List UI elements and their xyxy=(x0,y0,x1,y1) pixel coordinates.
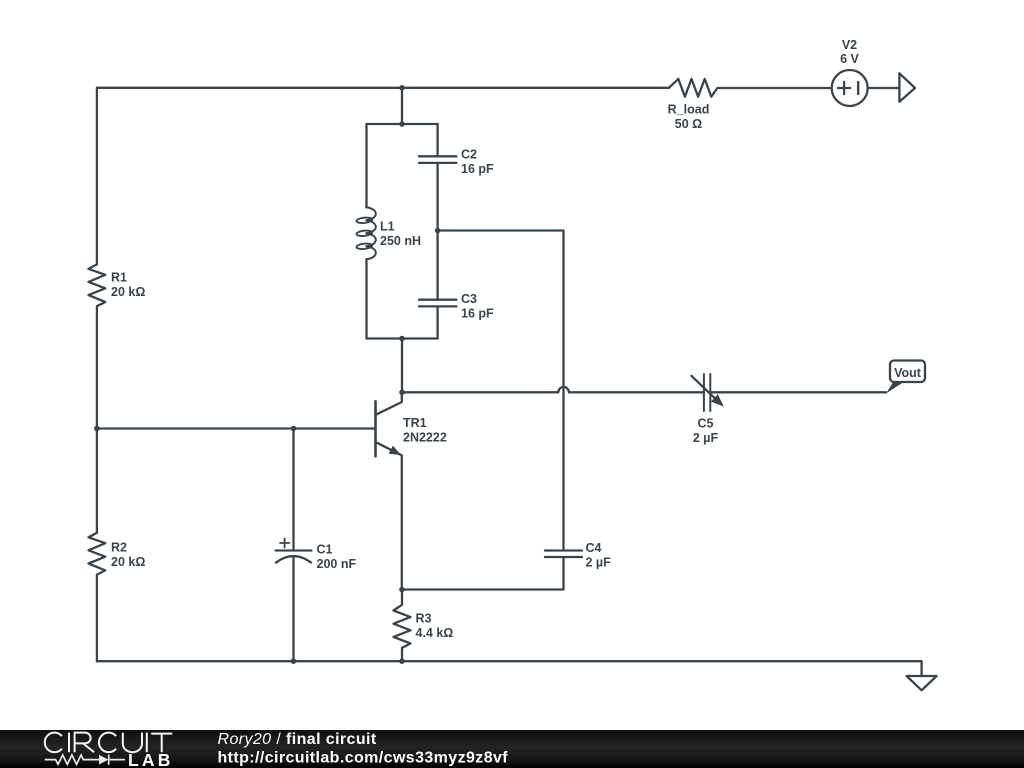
svg-text:C4: C4 xyxy=(586,541,602,555)
svg-text:http://circuitlab.com/cws33myz: http://circuitlab.com/cws33myz9z8vf xyxy=(218,749,509,766)
svg-text:2 µF: 2 µF xyxy=(693,431,719,445)
svg-text:Rory20 / final circuit: Rory20 / final circuit xyxy=(218,731,377,748)
svg-text:20 kΩ: 20 kΩ xyxy=(111,285,145,299)
svg-text:Vout: Vout xyxy=(894,366,922,380)
svg-text:16 pF: 16 pF xyxy=(461,162,494,176)
svg-text:C5: C5 xyxy=(698,417,714,431)
svg-text:L1: L1 xyxy=(380,220,395,234)
svg-text:R2: R2 xyxy=(111,541,127,555)
svg-text:6 V: 6 V xyxy=(840,52,859,66)
svg-text:16 pF: 16 pF xyxy=(461,307,494,321)
svg-text:R_load: R_load xyxy=(668,103,710,117)
svg-text:200 nF: 200 nF xyxy=(317,557,357,571)
svg-text:20 kΩ: 20 kΩ xyxy=(111,555,145,569)
svg-text:R3: R3 xyxy=(416,612,432,626)
svg-text:2 µF: 2 µF xyxy=(586,556,612,570)
svg-text:C3: C3 xyxy=(461,292,477,306)
svg-text:V2: V2 xyxy=(842,38,857,52)
svg-text:2N2222: 2N2222 xyxy=(403,431,447,445)
svg-text:TR1: TR1 xyxy=(403,416,427,430)
svg-text:250 nH: 250 nH xyxy=(380,234,421,248)
svg-text:C2: C2 xyxy=(461,148,477,162)
svg-text:C1: C1 xyxy=(317,543,333,557)
svg-text:4.4 kΩ: 4.4 kΩ xyxy=(416,626,454,640)
svg-text:R1: R1 xyxy=(111,271,127,285)
svg-text:50 Ω: 50 Ω xyxy=(675,117,702,131)
